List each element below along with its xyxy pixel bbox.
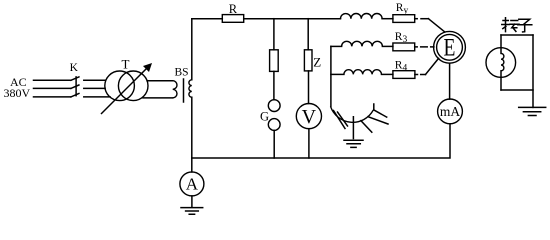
impedance Z box	[304, 50, 312, 71]
transformer BS core	[183, 79, 185, 102]
wire coil1 to Ry	[382, 18, 393, 20]
resistor R	[222, 15, 243, 23]
rotor winding coil	[500, 35, 502, 53]
transformer T arrow	[102, 69, 147, 114]
label rotor (子)	[518, 19, 532, 32]
inductor L2 (row 2)	[331, 45, 342, 47]
stator rays	[361, 110, 388, 132]
switch K link bar	[75, 77, 77, 96]
meter E (double circle)	[434, 31, 466, 63]
svg-text:K: K	[70, 62, 79, 74]
inductor L1 (top row)	[341, 13, 383, 18]
rotor loop top wire	[501, 34, 533, 36]
label rotor (转)	[502, 18, 519, 32]
wire switch to T	[84, 80, 110, 97]
wire E to mA	[449, 63, 451, 99]
rotor loop bottom wire	[501, 89, 533, 91]
wire main left vertical	[191, 19, 193, 158]
resistor R3	[393, 43, 415, 51]
spark gap G	[268, 100, 280, 112]
wire T to BS	[143, 81, 173, 98]
wire phase lines left	[34, 80, 71, 97]
rotor winding circle	[486, 48, 516, 78]
resistor (G branch box)	[270, 50, 279, 72]
wire spark gap to bottom rail	[273, 130, 275, 158]
svg-text:Z: Z	[313, 55, 321, 70]
stator arc tick	[373, 104, 375, 110]
stator bore arc	[331, 106, 374, 122]
transformer BS primary winding	[173, 81, 177, 98]
voltmeter V	[296, 104, 321, 129]
svg-text:V: V	[302, 106, 317, 128]
svg-text:mA: mA	[440, 104, 461, 119]
svg-text:G: G	[260, 110, 269, 124]
stator hatch lines	[334, 111, 348, 129]
ammeter A	[191, 158, 193, 172]
wire mA to bottom rail	[192, 124, 450, 158]
wire dashed Ry to E	[415, 18, 418, 20]
wire to spark gap	[273, 71, 275, 99]
transformer T circles	[105, 71, 135, 101]
ground (ammeter)	[181, 196, 203, 214]
svg-text:R: R	[229, 2, 238, 16]
resistor R4	[393, 71, 415, 79]
ground (stator)	[344, 117, 363, 148]
resistor Ry	[393, 15, 415, 23]
switch K	[71, 77, 79, 97]
wire dashed R3 to E	[415, 46, 434, 48]
wire Z to voltmeter	[308, 71, 310, 104]
node junction G branch	[273, 19, 275, 50]
ground (rotor)	[519, 107, 546, 115]
svg-text:E: E	[444, 33, 456, 61]
rotor right wire	[532, 35, 534, 107]
transformer BS secondary winding	[189, 80, 192, 97]
wire top rail	[192, 18, 341, 20]
wire rows 2-3 left vertical	[330, 46, 332, 106]
milliammeter mA	[438, 99, 463, 124]
svg-text:BS: BS	[175, 67, 189, 79]
wire V to bottom rail	[308, 129, 310, 158]
node junction Z branch	[307, 19, 309, 50]
wire dashed R4 to E	[415, 74, 426, 76]
svg-text:A: A	[186, 175, 199, 194]
inductor L3 (row 3)	[331, 73, 344, 75]
svg-text:T: T	[122, 57, 130, 72]
svg-text:380V: 380V	[4, 86, 31, 100]
